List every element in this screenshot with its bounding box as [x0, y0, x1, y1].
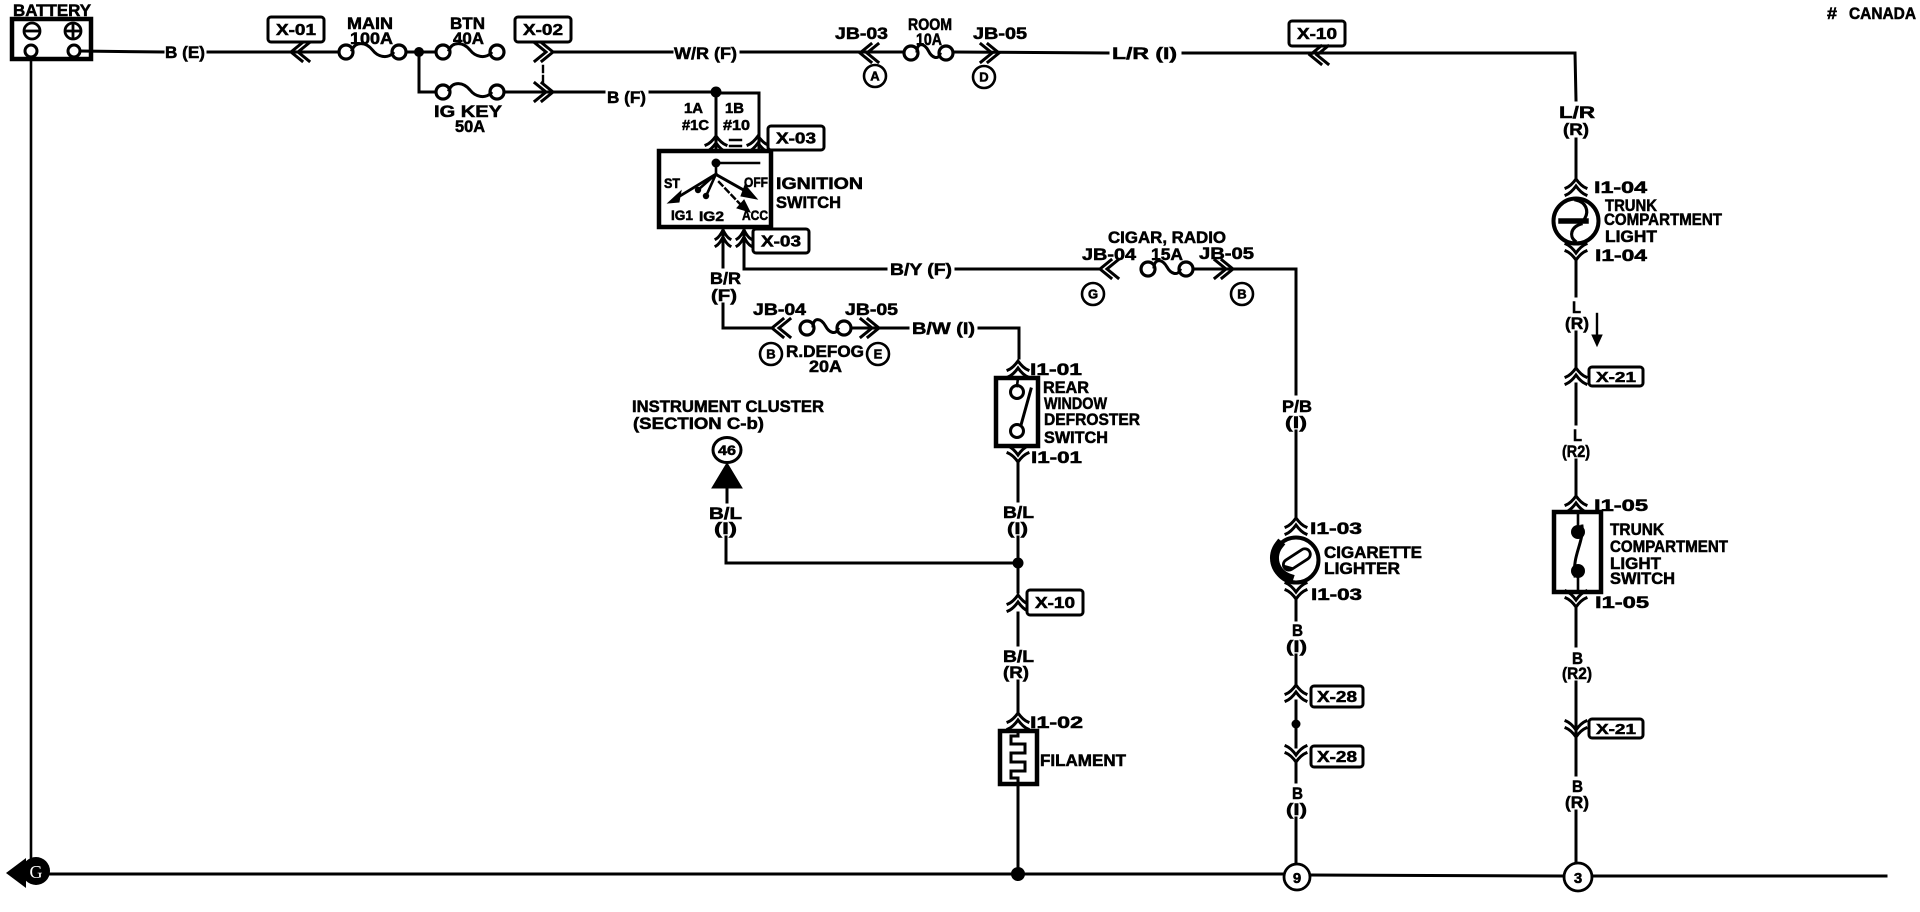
svg-text:SWITCH: SWITCH — [1610, 569, 1675, 588]
svg-text:DEFROSTER: DEFROSTER — [1044, 410, 1140, 429]
svg-text:LIGHTER: LIGHTER — [1324, 559, 1400, 578]
svg-text:X-28: X-28 — [1317, 689, 1357, 706]
svg-text:(I): (I) — [1285, 413, 1307, 432]
svg-text:A: A — [870, 69, 880, 84]
svg-text:I1-03: I1-03 — [1310, 519, 1362, 538]
svg-text:SWITCH: SWITCH — [776, 193, 841, 212]
wire filament to ground bus — [1017, 784, 1020, 874]
wire B/Y to cigar fuse — [956, 268, 1100, 271]
connector X-02 — [515, 17, 571, 42]
svg-text:X-10: X-10 — [1297, 26, 1337, 43]
connector JB-05 cigar — [1222, 260, 1233, 278]
svg-text:B (F): B (F) — [607, 88, 646, 107]
svg-text:LIGHT: LIGHT — [1605, 227, 1658, 246]
svg-text:E: E — [874, 347, 883, 362]
fuse CIGAR RADIO 15A — [1141, 262, 1155, 276]
svg-text:X-03: X-03 — [776, 131, 816, 148]
wire P/B to lighter — [1295, 431, 1298, 518]
trunk compartment light (lamp) — [1554, 199, 1599, 244]
svg-text:G: G — [30, 862, 43, 882]
svg-text:IG1: IG1 — [671, 207, 693, 223]
ground bus wire — [48, 874, 1886, 876]
svg-text:(R): (R) — [1565, 314, 1589, 333]
wire B/Y from ignition — [744, 246, 886, 269]
svg-text:I1-05: I1-05 — [1595, 593, 1649, 612]
connector JB-04 cigar — [1100, 260, 1111, 278]
wire battery negative to ground — [30, 57, 33, 860]
connector I1-01 upper — [1008, 361, 1028, 370]
reference arrow down — [1596, 314, 1598, 336]
svg-text:CANADA: CANADA — [1849, 4, 1916, 23]
connector X-28 upper — [1286, 685, 1306, 694]
svg-text:FILAMENT: FILAMENT — [1040, 751, 1127, 770]
junction node — [414, 47, 424, 57]
wire ignition pins down — [722, 227, 725, 246]
wire B (R) to ground point 3 — [1575, 811, 1578, 863]
rear window defroster switch — [996, 378, 1038, 446]
svg-text:B: B — [766, 347, 775, 362]
fuse IG KEY 50A — [436, 85, 450, 99]
svg-text:X-21: X-21 — [1596, 721, 1636, 738]
junction node B/L — [1013, 558, 1024, 569]
wire to L/R (I) — [953, 52, 1108, 53]
wire L/R to corner — [1183, 53, 1576, 100]
wire instrument cluster branch — [726, 537, 1018, 563]
wire X-21 to B (R) — [1575, 740, 1578, 775]
connector I1-01 lower — [1008, 453, 1028, 462]
cigarette lighter — [1274, 538, 1319, 583]
battery — [12, 19, 91, 59]
svg-text:20A: 20A — [809, 357, 842, 376]
svg-text:40A: 40A — [453, 29, 484, 48]
svg-text:(R): (R) — [1003, 663, 1029, 682]
svg-text:B/W (I): B/W (I) — [912, 319, 975, 338]
svg-text:X-28: X-28 — [1317, 749, 1357, 766]
svg-text:G: G — [1088, 287, 1098, 302]
svg-text:JB-03: JB-03 — [835, 24, 888, 43]
svg-text:3: 3 — [1574, 870, 1582, 887]
wire pin 1A path — [715, 92, 718, 151]
svg-text:(R2): (R2) — [1562, 664, 1592, 683]
wire defroster to B/L — [1017, 464, 1020, 501]
wire switch to B (R2) — [1575, 609, 1578, 646]
trunk compartment light switch — [1554, 512, 1601, 592]
ground G — [6, 857, 50, 888]
wire pin 1B loop path — [716, 93, 759, 163]
svg-text:I1-01: I1-01 — [1031, 448, 1082, 467]
svg-text:B: B — [1237, 287, 1246, 302]
svg-text:JB-05: JB-05 — [973, 24, 1027, 43]
wire X-21 to L (R2) — [1575, 384, 1578, 424]
wire B(E) to MAIN fuse — [208, 51, 339, 54]
connector I1-04 upper — [1566, 179, 1586, 188]
connector X-28 lower — [1286, 753, 1306, 762]
svg-text:#10: #10 — [723, 117, 750, 134]
wire to B/L (R) — [1017, 613, 1020, 645]
connector X-03 upper dashed link — [730, 140, 741, 146]
connector X-10 mid — [1008, 595, 1028, 604]
wire B (I) to ground point 9 — [1295, 818, 1298, 864]
connector X-03 upper chevrons — [706, 136, 726, 145]
svg-text:(F): (F) — [711, 286, 737, 305]
connector X-01 — [268, 17, 324, 42]
wire B (R2) to X-21 lower — [1575, 682, 1578, 740]
svg-text:X-10: X-10 — [1035, 595, 1075, 612]
wire B/L to junction — [1017, 537, 1020, 592]
svg-text:1A: 1A — [684, 100, 703, 117]
wire B(F) to ignition junction — [650, 91, 716, 94]
wire lamp to L (R) — [1575, 262, 1578, 296]
ground point 3 — [1564, 863, 1592, 891]
wire X-28 to B (I) — [1295, 764, 1298, 782]
junction node ignition feed — [711, 87, 722, 98]
wire IG KEY to B(F) — [504, 91, 604, 94]
svg-text:SWITCH: SWITCH — [1044, 428, 1108, 447]
connector X-21 upper — [1566, 368, 1586, 377]
connector I1-03 upper — [1286, 518, 1306, 527]
svg-text:I1-04: I1-04 — [1594, 178, 1648, 197]
wire between X-28 — [1295, 701, 1298, 747]
wire B/W corner down — [979, 328, 1019, 358]
svg-text:I1-04: I1-04 — [1595, 246, 1648, 265]
filament (rear defogger grid) — [1000, 731, 1037, 784]
svg-text:1B: 1B — [725, 100, 744, 117]
svg-text:ST: ST — [664, 175, 680, 191]
svg-text:X-02: X-02 — [523, 22, 563, 39]
svg-text:W/R (F): W/R (F) — [674, 44, 737, 63]
connector I1-03 lower — [1286, 590, 1306, 599]
wire L/R to trunk lamp — [1575, 139, 1578, 180]
svg-text:B/Y (F): B/Y (F) — [890, 260, 952, 279]
ground point 9 — [1284, 864, 1310, 890]
ignition switch internals — [668, 159, 759, 213]
connector I1-05 upper — [1566, 496, 1586, 505]
svg-text:IG2: IG2 — [699, 208, 724, 224]
svg-text:L/R (I): L/R (I) — [1112, 44, 1177, 63]
wire to JB-03 — [741, 51, 904, 54]
svg-text:(I): (I) — [1007, 519, 1028, 538]
svg-text:ACC: ACC — [742, 207, 768, 223]
svg-text:9: 9 — [1293, 870, 1301, 887]
wire arrow stub — [726, 488, 729, 502]
fuse R.DEFOG 20A — [800, 321, 814, 335]
svg-text:(I): (I) — [1286, 637, 1307, 656]
wire lighter to B (I) — [1295, 601, 1298, 620]
svg-text:#: # — [1827, 4, 1838, 23]
svg-text:46: 46 — [718, 442, 736, 458]
svg-text:IGNITION: IGNITION — [776, 174, 863, 193]
svg-text:(I): (I) — [714, 519, 737, 538]
wire B/L (R) to filament — [1017, 681, 1020, 712]
wire L (R2) to trunk switch — [1575, 460, 1578, 497]
svg-text:OFF: OFF — [744, 174, 768, 190]
wire to IG KEY fuse — [419, 52, 436, 92]
connector X-03 upper box — [768, 126, 824, 150]
connector I1-02 — [1008, 713, 1028, 722]
wire junction — [406, 51, 436, 54]
wire battery positive to B(E) — [80, 51, 163, 52]
svg-text:I1-03: I1-03 — [1311, 585, 1362, 604]
connector X-21 lower — [1566, 728, 1586, 737]
wire B/R to fuse — [723, 304, 772, 328]
wire B (I) to X-28 — [1295, 655, 1298, 684]
svg-text:JB-04: JB-04 — [753, 300, 807, 319]
junction node X-28 — [1292, 720, 1301, 729]
connector I1-05 lower — [1566, 598, 1586, 607]
wire cigar fuse to P/B corner — [1193, 269, 1296, 394]
svg-text:B (E): B (E) — [165, 43, 205, 62]
connector X-02 dashed link — [542, 66, 544, 82]
svg-text:(R): (R) — [1563, 120, 1589, 139]
wire L (R) to X-21 — [1575, 332, 1578, 368]
svg-text:(R2): (R2) — [1562, 442, 1590, 461]
svg-text:X-21: X-21 — [1596, 369, 1636, 386]
connector X-03 lower box — [753, 229, 809, 253]
svg-text:(I): (I) — [1286, 800, 1307, 819]
connector X-03 lower chevrons — [716, 230, 730, 239]
svg-text:JB-05: JB-05 — [1199, 244, 1254, 263]
wire to B/W (I) — [851, 327, 908, 330]
svg-text:X-03: X-03 — [761, 234, 801, 251]
svg-text:50A: 50A — [455, 117, 485, 136]
wire B/R upper — [722, 246, 725, 267]
ignition switch box U1 — [659, 151, 771, 227]
connector X-10 top — [1289, 21, 1345, 46]
connector I1-04 lower — [1566, 251, 1586, 260]
arrow to instrument cluster — [712, 463, 742, 488]
svg-text:#1C: #1C — [682, 117, 709, 134]
svg-text:D: D — [979, 70, 988, 85]
wire W/R segment — [553, 51, 672, 54]
svg-text:(SECTION C-b): (SECTION C-b) — [633, 414, 764, 433]
junction node ground bus — [1011, 867, 1025, 881]
svg-text:JB-05: JB-05 — [845, 300, 898, 319]
svg-text:(R): (R) — [1565, 793, 1589, 812]
svg-text:X-01: X-01 — [276, 22, 316, 39]
node 46 circle — [713, 438, 741, 463]
